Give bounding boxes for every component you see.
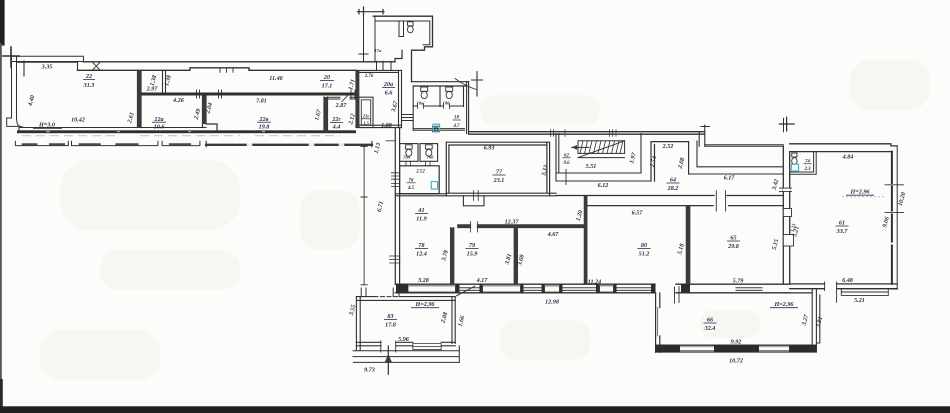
- stair room west wall (double): [556, 134, 559, 182]
- window plain boxes south band: [408, 286, 614, 292]
- ticks on top wall: [551, 130, 617, 137]
- door ticks 61 west wall: [783, 188, 790, 191]
- svg-text:19.8: 19.8: [259, 125, 270, 131]
- svg-text:22: 22: [85, 74, 92, 80]
- wall: jog x586.8 (double) room 80 west: [584, 196, 587, 285]
- door hatch west wall lower: [390, 256, 401, 263]
- LEFT WING TEXTS: [27, 65, 399, 131]
- vestibule below room 77: [463, 196, 484, 206]
- wall: corridor 64 south upper line with door gap: [556, 195, 783, 197]
- svg-text:5.21: 5.21: [854, 298, 865, 304]
- wall: 18-block east connector (double): [467, 82, 469, 134]
- wall: stub x699-705 with cross: [699, 125, 709, 146]
- wall: 61 east outer: [896, 146, 898, 289]
- wall: interior main (thick) between corridor 20 and rooms: [141, 93, 356, 96]
- mullions in south band: [396, 284, 690, 293]
- svg-text:6.93: 6.93: [484, 146, 495, 152]
- svg-text:22е: 22е: [362, 114, 370, 119]
- tick on west wall top: [386, 140, 395, 142]
- wall: right wing west (double): [395, 128, 399, 285]
- toilet 76a: [405, 145, 412, 149]
- svg-text:17а: 17а: [375, 48, 383, 53]
- svg-text:76а: 76а: [403, 155, 411, 160]
- stubs annex to wing: [377, 61, 392, 70]
- wall: room 22 interior top notch: [17, 61, 78, 76]
- svg-text:3.35: 3.35: [41, 65, 53, 71]
- door tick stair room: [565, 170, 567, 185]
- ROOM 61 BLOCK: [779, 117, 903, 302]
- piers 66 south wall: [656, 345, 817, 352]
- wall: 66 south (double): [656, 345, 817, 352]
- svg-text:18а: 18а: [417, 101, 425, 106]
- ROOM 66 / 83 TEXTS: [349, 302, 825, 374]
- room 20a bottom (double): [356, 125, 402, 127]
- door ticks vestibule: [474, 191, 479, 201]
- door ticks on interior wall: [197, 90, 222, 98]
- svg-text:9.6: 9.6: [563, 161, 570, 166]
- porch lines below 83: [353, 346, 460, 363]
- TOP ANNEX: [358, 7, 433, 82]
- axis cross annex top: [358, 7, 385, 16]
- svg-text:20: 20: [323, 75, 330, 81]
- wall: room 65 east = 61 block west (double): [783, 146, 789, 284]
- wall: y226.8 rooms 78/79 top (double) with door gap: [458, 225, 587, 228]
- svg-text:2.3: 2.3: [803, 167, 811, 172]
- wall: 66 east (double): [812, 289, 820, 352]
- door ticks at corridor end: [351, 90, 355, 99]
- wall: left wing top single: [78, 62, 396, 71]
- svg-text:6.17: 6.17: [724, 176, 736, 182]
- svg-text:5.79: 5.79: [733, 279, 744, 285]
- room 76 box: [400, 166, 440, 194]
- wall: annex inner lines: [375, 16, 430, 61]
- room 74 cubicle walls: [790, 152, 817, 175]
- stairs flight box: [578, 141, 625, 154]
- wall: room 22a | 22v (double with foot step): [203, 96, 218, 132]
- svg-text:2.76: 2.76: [364, 74, 374, 79]
- axis line annex west: [359, 12, 368, 62]
- window band below 61 south: [841, 289, 888, 296]
- door hatch passage 20a to 18-block: [403, 115, 413, 121]
- svg-text:18б: 18б: [443, 101, 451, 106]
- scan black band bottom: [0, 406, 950, 413]
- window sills south band: [460, 288, 763, 291]
- toilet 74: [792, 153, 797, 157]
- cyan mark room 76: [431, 182, 437, 190]
- wall: left wing exterior top (double): [11, 56, 84, 62]
- wall: room 22v | 22g (double): [324, 97, 328, 132]
- svg-text:17.1: 17.1: [322, 84, 333, 90]
- svg-text:10.42: 10.42: [71, 118, 85, 124]
- wall: 83 north (double, part dashed): [356, 297, 455, 301]
- cyan mark room 18: [433, 124, 440, 131]
- svg-text:6.12: 6.12: [598, 183, 609, 189]
- wall ticks on top wall: [88, 62, 233, 72]
- svg-text:4.4: 4.4: [332, 125, 341, 131]
- wall: 61 east inner segments: [891, 152, 893, 284]
- axis cross above 61 block: [779, 117, 794, 131]
- wall: left wing bottom interior line: [19, 127, 206, 129]
- entrance arrow: [387, 346, 389, 374]
- door jambs 61 south: [825, 282, 837, 302]
- svg-text:2.87: 2.87: [335, 103, 348, 109]
- wall: corridor 20 east / closet west (double): [356, 71, 359, 128]
- stubs 83 to main block: [361, 288, 399, 297]
- wall: 66 west (double) with window: [656, 293, 660, 352]
- svg-text:H=2.96: H=2.96: [773, 302, 794, 308]
- wall: 61 top (double with step): [790, 144, 898, 152]
- scan left edge line: [0, 43, 2, 407]
- partition fills (dark wall bands): [137, 71, 690, 285]
- wall: left exterior (double): [12, 56, 17, 119]
- svg-text:12.37: 12.37: [505, 220, 520, 226]
- 18-BLOCK: [403, 72, 483, 134]
- wall: cubicles bottom with door gaps: [413, 105, 463, 107]
- svg-text:28.2: 28.2: [667, 186, 679, 192]
- wall: 83 east (double): [452, 297, 455, 344]
- wall: south band main (double): [395, 284, 790, 293]
- svg-text:2.52: 2.52: [415, 169, 425, 174]
- closet 22e inner: [361, 100, 370, 125]
- svg-text:31.3: 31.3: [83, 83, 95, 89]
- svg-text:17.8: 17.8: [385, 323, 396, 329]
- svg-text:12.4: 12.4: [416, 252, 427, 258]
- wall: 18-block top (double): [412, 82, 469, 86]
- cubicle 76b: [420, 144, 438, 162]
- wall: 83 west (double): [356, 297, 360, 351]
- wall: room 22 | 22a (double): [138, 71, 142, 128]
- svg-text:51.2: 51.2: [639, 252, 650, 258]
- window 83 south: [413, 344, 441, 350]
- svg-text:H=2.96: H=2.96: [414, 302, 435, 308]
- svg-text:11.24: 11.24: [588, 280, 601, 286]
- svg-text:33.7: 33.7: [836, 229, 849, 235]
- wall: top y146 to room 61 block: [705, 145, 784, 147]
- svg-text:10.72: 10.72: [729, 359, 743, 365]
- door ticks wall y226: [471, 222, 478, 233]
- toilet annex: tank: [408, 22, 414, 26]
- svg-text:5.51: 5.51: [586, 164, 597, 170]
- svg-text:12.98: 12.98: [545, 300, 559, 306]
- svg-text:10.6: 10.6: [154, 125, 166, 131]
- diagonal link: [457, 286, 475, 296]
- wall: annex partition stub: [399, 21, 404, 37]
- wall: room 78 | 79 (double): [451, 228, 454, 285]
- door jamb ticks cubicles: [418, 104, 450, 109]
- door leaf room 22g: [342, 94, 350, 102]
- cyan mark room 74: [792, 164, 799, 171]
- wall: 83 south (double) with window: [356, 342, 455, 346]
- scan black bar top-left: [0, 0, 5, 46]
- scan black bar bottom-left: [0, 379, 3, 407]
- door jamb ticks 83 entrance: [381, 341, 396, 352]
- windows 66 south: [680, 347, 789, 351]
- svg-text:1.88: 1.88: [381, 123, 392, 129]
- DIMENSION CHAINS BOTTOM LEFT: [15, 141, 372, 285]
- svg-text:H=3.0: H=3.0: [38, 123, 55, 129]
- room 20a top (double): [356, 70, 402, 72]
- stairs hatch: [580, 141, 623, 154]
- wall: 61 block west stub above: [783, 118, 785, 131]
- svg-text:2.97: 2.97: [146, 87, 159, 93]
- chain segment 1: [15, 141, 68, 145]
- wall: room 18 bottom (double): [413, 129, 464, 131]
- svg-text:4.67: 4.67: [547, 232, 560, 238]
- stair room south wall (double): [556, 134, 651, 182]
- wall: annex outer outline: [373, 16, 432, 82]
- RIGHT WING TEXTS: [403, 144, 797, 306]
- wall: room 80 | 65 (double): [686, 206, 690, 285]
- wall: left wing bottom thick band: [17, 130, 356, 133]
- svg-text:4.17: 4.17: [476, 278, 489, 284]
- stairs diagonal: [578, 141, 625, 158]
- sink room 18: [433, 126, 440, 132]
- chain segment 2: [72, 141, 158, 145]
- door ticks to room 66: [675, 287, 680, 304]
- scan nicks in bottom band: [46, 131, 265, 133]
- RIGHT WING WALLS: [386, 125, 783, 284]
- axis cross top-left: [3, 47, 19, 67]
- svg-text:H=2.96: H=2.96: [849, 190, 870, 196]
- svg-text:3.28: 3.28: [417, 278, 429, 284]
- svg-text:76б: 76б: [427, 155, 435, 160]
- svg-text:4.7: 4.7: [452, 124, 460, 129]
- svg-text:5.96: 5.96: [398, 337, 410, 343]
- window ticks 61 east: [885, 185, 904, 213]
- wall: right wing top (double): [469, 132, 705, 135]
- room 20a east wall (double): [399, 70, 402, 127]
- svg-text:23.1: 23.1: [493, 178, 505, 184]
- wall: room 22g top (double) with door gap: [328, 97, 357, 99]
- svg-text:1.5: 1.5: [363, 121, 369, 126]
- axis cross + arc right of annex: [472, 72, 483, 97]
- wall: room 76/77 south (double): [395, 194, 446, 196]
- door hatch room 76 west: [391, 173, 400, 187]
- wall: rooms 80/65 top line with door gap: [587, 205, 784, 207]
- svg-text:15.9: 15.9: [467, 252, 478, 258]
- door jamb ticks corridor 64: [716, 191, 725, 211]
- svg-text:9.92: 9.92: [731, 340, 742, 346]
- door ticks cubicles to room 76: [406, 161, 430, 166]
- wall: room 79 east (double): [514, 228, 517, 285]
- svg-text:4.5: 4.5: [407, 186, 415, 191]
- wall: y174 and y166.8 to room 61 block: [689, 141, 784, 174]
- wall: corridor 20 split (double): [163, 70, 166, 92]
- stairs direction arrow: [572, 146, 590, 148]
- niche in 61 west wall (upper): [783, 209, 791, 217]
- svg-text:6.57: 6.57: [632, 211, 644, 217]
- svg-text:4.84: 4.84: [842, 155, 854, 161]
- closet 22e outer: [359, 97, 373, 127]
- svg-text:7.81: 7.81: [256, 99, 267, 105]
- svg-text:4.26: 4.26: [172, 98, 185, 104]
- svg-text:6.6: 6.6: [385, 91, 394, 97]
- wall: annex bottom: [395, 50, 402, 62]
- svg-text:29.8: 29.8: [727, 244, 739, 250]
- toilet 18b: tank + bowl: [446, 87, 453, 91]
- ROOM 83 ANNEX: [353, 286, 475, 374]
- svg-text:6.48: 6.48: [842, 278, 853, 284]
- chain segment 3: [162, 141, 200, 145]
- svg-text:2.52: 2.52: [662, 144, 674, 150]
- ROOM 66 ANNEX: [656, 289, 820, 353]
- toilet annex: bowl: [407, 26, 413, 33]
- toilet 18a: tank + bowl: [421, 87, 428, 91]
- room 77 walls (double): [446, 142, 556, 196]
- chain segment 4 (thick): [206, 144, 372, 146]
- toilet 76b: [425, 145, 432, 149]
- wall: room 18 west: [412, 107, 414, 131]
- svg-text:32.4: 32.4: [704, 326, 716, 332]
- svg-text:11.9: 11.9: [416, 217, 426, 223]
- svg-text:11.46: 11.46: [269, 76, 283, 82]
- wall: gap closure 61-66: [783, 292, 812, 294]
- alcove walls near corridor 64: [651, 142, 689, 181]
- niche in 61 west wall (lower): [783, 235, 793, 247]
- vertical chain at x364: [361, 146, 367, 285]
- svg-text:9.73: 9.73: [364, 368, 375, 374]
- wall: plinth notch bottom-left: [7, 118, 27, 131]
- wall: 61 south (double) with opening: [790, 284, 898, 289]
- scan shadow below band: [22, 135, 340, 137]
- cubicle 76a: [400, 144, 418, 162]
- wall: cubicles 18a/18b box: [413, 86, 463, 107]
- ROOM 61 TEXTS: [792, 155, 907, 305]
